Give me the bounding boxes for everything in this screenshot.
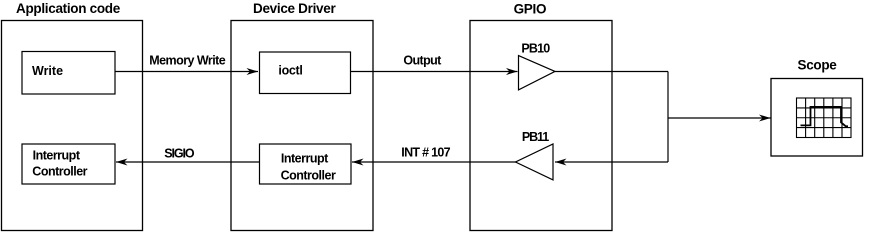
svg-text:Interrupt: Interrupt [33, 149, 81, 163]
box Interrupt Controller (device driver) [260, 144, 352, 184]
svg-text:ioctl: ioctl [278, 64, 302, 78]
svg-text:Device Driver: Device Driver [253, 1, 336, 16]
buffer PB11 [516, 130, 554, 180]
svg-text:PB10: PB10 [521, 42, 550, 56]
buffer PB10 [519, 42, 556, 90]
svg-text:Application code: Application code [16, 1, 121, 16]
block Device Driver (outer box) [231, 1, 373, 231]
svg-text:Memory Write: Memory Write [149, 54, 225, 68]
svg-text:PB11: PB11 [522, 130, 549, 144]
svg-text:GPIO: GPIO [514, 1, 547, 16]
svg-text:INT # 107: INT # 107 [401, 146, 450, 160]
wire trunk vertical [667, 72, 669, 163]
wire SIGIO arrow (device IC to application IC) [116, 146, 260, 165]
svg-text:Controller: Controller [281, 169, 336, 183]
svg-text:Write: Write [32, 64, 63, 78]
wire arrow to Scope [668, 115, 771, 122]
box ioctl [260, 52, 351, 94]
svg-text:SIGIO: SIGIO [164, 146, 195, 160]
wire PB10 output to trunk [555, 71, 668, 73]
box Write [22, 52, 115, 95]
wire Memory Write arrow (Write to ioctl) [115, 54, 258, 76]
wire trunk to PB11 buffer [555, 159, 668, 166]
block GPIO (outer box) [470, 1, 612, 230]
scope waveform trace [801, 107, 849, 126]
wire INT # 107 arrow (PB11 to device Interrupt Controller) [352, 146, 516, 166]
svg-text:Interrupt: Interrupt [281, 151, 329, 165]
block Scope (outer box) [771, 58, 863, 156]
box Interrupt Controller (application) [22, 144, 115, 184]
svg-text:Output: Output [403, 54, 442, 68]
svg-text:Scope: Scope [798, 58, 838, 73]
scope screen grid [797, 98, 852, 138]
block Application code (outer box) [2, 1, 143, 231]
svg-text:Controller: Controller [32, 165, 87, 179]
wire Output arrow (ioctl to PB10 buffer) [351, 54, 518, 75]
